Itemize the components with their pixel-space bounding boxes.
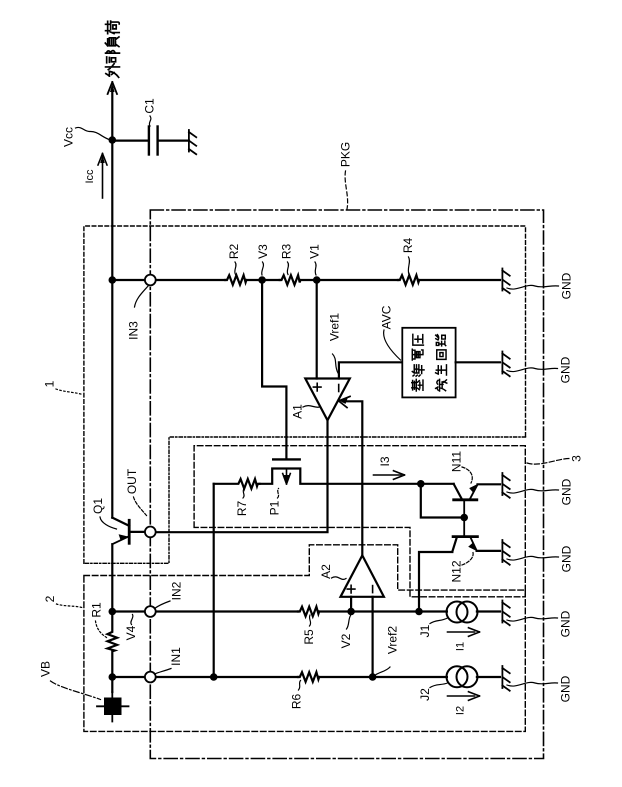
svg-text:GND: GND — [560, 478, 574, 505]
current source J2 (two overlapping circles) — [447, 666, 478, 687]
svg-text:PKG: PKG — [339, 142, 353, 167]
label I1 with current arrow — [448, 628, 480, 651]
svg-text:V1: V1 — [308, 244, 322, 259]
label V2 with leader — [339, 616, 353, 649]
svg-text:VB: VB — [39, 661, 53, 677]
svg-text:R6: R6 — [290, 694, 304, 710]
svg-text:V3: V3 — [256, 244, 270, 259]
wire: R2 to V3 node — [246, 279, 262, 281]
wire: R4 to ground — [419, 279, 500, 281]
svg-text:R2: R2 — [227, 244, 241, 260]
wire: R3 to V1 node — [300, 279, 316, 281]
wire: J1 to ground — [477, 610, 500, 612]
svg-text:Vref1: Vref1 — [328, 313, 342, 342]
label GND 2 with squiggle — [507, 356, 573, 383]
svg-text:IN1: IN1 — [169, 647, 183, 666]
label V1 — [308, 244, 322, 275]
svg-text:GND: GND — [560, 545, 574, 572]
node: A2 plus junction dot (V2) — [347, 608, 355, 616]
label GND 6 with squiggle — [507, 675, 573, 702]
label V3 — [256, 244, 270, 275]
label 基準電圧 / 発生回路 inside box — [412, 334, 447, 391]
ground (reference box / GND pin 2) — [502, 352, 509, 377]
pin OUT (open circle on PKG border) — [145, 527, 156, 538]
label N12 with leader — [450, 553, 474, 583]
label Q1 with leader — [91, 498, 117, 529]
svg-text:N11: N11 — [450, 451, 464, 472]
label Vcc — [62, 127, 110, 147]
resistor R5 — [298, 607, 319, 617]
wire: Q1 emitter down to R1 node — [111, 544, 113, 611]
svg-text:GND: GND — [559, 356, 573, 383]
svg-text:V4: V4 — [124, 625, 138, 640]
label J1 with leader — [418, 618, 448, 637]
svg-text:GND: GND — [559, 675, 573, 702]
label Vref2 with leader — [376, 626, 400, 675]
transistor N12 (NPN, collector to IN2 node wire, emitter to ground) — [419, 518, 500, 612]
ground (C1) — [189, 130, 196, 154]
block: reference voltage generator box — [402, 328, 455, 398]
label IN1 with leader — [155, 647, 184, 674]
ground (N11 emitter / GND pin 3) — [502, 473, 509, 498]
current source J1 (two overlapping circles) — [447, 602, 478, 623]
op-amp A2 (triangle pointing up, output at apex) — [341, 555, 384, 596]
svg-text:Vref2: Vref2 — [386, 626, 400, 655]
label I2 with current arrow — [448, 692, 480, 715]
svg-text:A1: A1 — [291, 404, 305, 419]
node: N11/N12 base junction dot — [460, 514, 468, 522]
label N11 with leader — [450, 451, 473, 483]
wire: V3 node down, over, down to P1 gate — [262, 280, 286, 459]
resistor R6 — [298, 672, 319, 682]
svg-text:V2: V2 — [339, 633, 353, 648]
pin IN3 (open circle on PKG border) — [145, 275, 156, 286]
resistor R4 — [398, 275, 419, 285]
svg-text:IN2: IN2 — [170, 581, 184, 600]
wire: A2 plus input down to IN2 rail — [350, 597, 352, 612]
svg-text:R3: R3 — [280, 244, 294, 260]
node: junction dot main line / IN3 rail — [109, 276, 117, 284]
label 1 with leader — [43, 380, 83, 394]
resistor R3 — [280, 275, 301, 285]
label A2 with leader — [319, 564, 346, 580]
svg-text:2: 2 — [43, 595, 57, 602]
label R2 — [227, 244, 241, 275]
label PKG with leader — [339, 142, 353, 209]
transistor P1 (MOSFET) — [260, 459, 421, 484]
label V4 with leader — [124, 615, 138, 641]
label 2 with leader — [43, 595, 82, 607]
wire: V3 to R3 — [262, 279, 280, 281]
svg-text:R5: R5 — [302, 629, 316, 645]
label R5 with leader — [302, 615, 316, 645]
wire: main Vcc vertical line from arrow to Q1 collector — [111, 88, 113, 518]
label P1 with leader — [268, 489, 282, 516]
pin IN2 (open circle on PKG border) — [145, 606, 156, 617]
label R7 with leader — [235, 489, 249, 517]
wire: A2 output up to arrow into A1 right edge — [343, 401, 362, 555]
resistor R2 — [225, 275, 246, 285]
label VB with leader — [39, 661, 101, 700]
wire: IN2 rail — [112, 610, 298, 612]
label R3 — [280, 244, 294, 275]
svg-text:I2: I2 — [455, 706, 467, 715]
block 3 boundary (dashed polygon with notch) — [194, 446, 525, 597]
wire: J2 to ground — [477, 676, 500, 678]
resistor R1 (vertical, between IN2 node and IN1 node) — [108, 612, 118, 678]
pin IN1 (open circle on PKG border) — [145, 672, 156, 683]
label IN2 with leader — [155, 581, 184, 608]
node: R1 bottom / VB junction dot — [109, 673, 117, 681]
block 1 boundary (dashed polygon with notch) — [84, 226, 526, 563]
label OUT with leader — [125, 468, 147, 515]
wire: IN3 rail (Vcc dot down at x=112.3 joins, rail to right) — [112, 279, 145, 281]
label GND 5 with squiggle — [507, 610, 573, 637]
svg-text:Icc: Icc — [84, 169, 96, 184]
wire: A1 output from apex down and left to OUT pin — [156, 420, 328, 532]
ground (R4 / GND pin 1) — [502, 269, 509, 294]
node: external load arrow at top — [108, 82, 117, 94]
wire: Vcc dot to C1 — [112, 140, 149, 142]
ground (J2 / GND pin 6) — [502, 666, 509, 691]
svg-text:R1: R1 — [90, 602, 104, 618]
svg-text:Q1: Q1 — [91, 498, 105, 514]
svg-text:OUT: OUT — [125, 468, 139, 494]
svg-text:R4: R4 — [401, 238, 415, 254]
label GND 4 with squiggle — [507, 545, 574, 572]
wire: C1 to ground — [158, 140, 189, 142]
op-amp A1 (triangle pointing down) — [305, 379, 350, 421]
node: junction dot P1 drain / N11 — [417, 480, 425, 488]
node: Vref2 junction dot — [369, 673, 377, 681]
svg-text:J1: J1 — [418, 624, 432, 637]
wire: IN3 pin to R2 — [156, 279, 226, 281]
label J2 with leader — [418, 683, 448, 701]
svg-text:GND: GND — [559, 610, 573, 637]
svg-text:I1: I1 — [455, 642, 467, 651]
node: R1 top junction dot — [109, 608, 117, 616]
wire: V1 node down to A1 + input — [316, 280, 318, 379]
svg-text:N12: N12 — [450, 560, 464, 582]
ground (N12 emitter / GND pin 4) — [502, 540, 509, 565]
resistor R7 — [214, 479, 260, 489]
wire: IN1 rail — [112, 676, 298, 678]
svg-text:AVC: AVC — [380, 305, 394, 329]
wire: R5 to A2 plus node to N12 node to J1 — [319, 610, 447, 612]
label A1 with leader — [291, 404, 321, 419]
svg-text:J2: J2 — [418, 688, 432, 701]
svg-text:R7: R7 — [235, 501, 249, 517]
svg-text:C1: C1 — [143, 98, 157, 114]
capacitor C1 — [149, 127, 158, 155]
wire: V1 to R4 — [317, 279, 398, 281]
node: arrowhead into A1 — [339, 396, 350, 407]
svg-text:Vcc: Vcc — [62, 127, 76, 147]
ground (J1 / GND pin 5) — [502, 601, 509, 626]
node: N12 wire junction dot — [415, 608, 423, 616]
transistor Q1 (PNP, on main line, base to OUT pin) — [112, 518, 145, 545]
label I3 with current arrow — [374, 456, 405, 479]
label: 外部負荷 (external load), rotated — [105, 21, 119, 77]
PKG package boundary (dash-dot box) — [150, 210, 543, 759]
node: Vcc junction dot — [109, 136, 117, 144]
label AVC with leader — [380, 305, 401, 360]
svg-text:IN3: IN3 — [127, 321, 141, 340]
svg-text:A2: A2 — [319, 564, 333, 579]
svg-text:3: 3 — [570, 455, 584, 462]
label GND 3 with squiggle — [507, 478, 574, 505]
label Vref1 with leader to minus input — [328, 313, 342, 373]
label Icc with arrow — [84, 154, 107, 199]
label C1 — [143, 98, 157, 126]
label R6 with leader — [290, 681, 304, 710]
node V3 (junction dot) — [258, 276, 266, 284]
label R4 — [401, 238, 415, 275]
wire: dot down and right to N11/N12 base node — [421, 484, 464, 518]
label GND 1 with squiggle — [507, 272, 574, 299]
svg-text:1: 1 — [43, 380, 57, 387]
transistor N11 (NPN, collector to P1 drain node, emitter to ground) — [421, 484, 500, 518]
wire: reference box output (AVC) to A1 minus input — [339, 362, 402, 378]
node: R7 line junction dot on IN1 rail — [210, 673, 218, 681]
block 2 boundary (dashed polygon with chimney around A2) — [84, 545, 525, 732]
svg-text:I3: I3 — [378, 456, 392, 466]
wire: A2 minus input down across IN2 rail to IN1 rail (Vref2) — [372, 597, 374, 677]
svg-text:GND: GND — [560, 272, 574, 299]
wire: reference box to ground — [456, 361, 500, 363]
terminal VB (filled square with cross stubs) — [97, 677, 129, 722]
label R1 with leader — [90, 602, 107, 637]
svg-text:P1: P1 — [268, 500, 282, 515]
wire: R7 left vertical (from R7 down through OUT wire to IN1 rail) — [213, 484, 215, 677]
wire: R6 to Vref2 node to J2 — [319, 676, 447, 678]
label 3 with leader — [527, 455, 584, 464]
node V1 (junction dot) — [313, 276, 321, 284]
label IN3 with leader — [127, 286, 149, 340]
